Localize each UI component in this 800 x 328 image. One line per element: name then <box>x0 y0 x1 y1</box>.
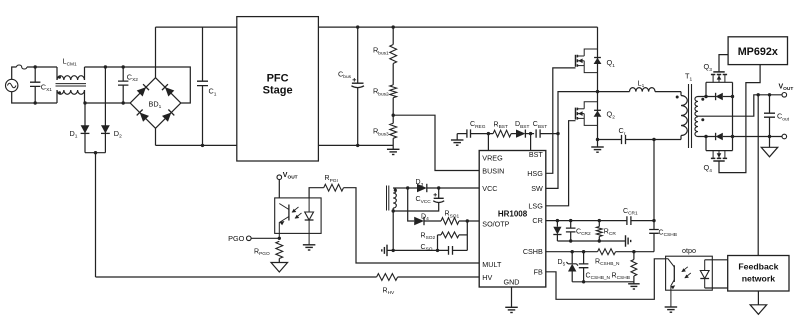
svg-text:BUSIN: BUSIN <box>482 167 504 176</box>
svg-text:PGO: PGO <box>228 234 245 243</box>
svg-text:HSG: HSG <box>527 169 543 178</box>
svg-text:SW: SW <box>531 184 543 193</box>
svg-text:GND: GND <box>504 278 520 287</box>
svg-text:BST: BST <box>529 150 544 159</box>
svg-text:HR1008: HR1008 <box>498 209 528 218</box>
svg-text:SO/OTP: SO/OTP <box>482 220 509 229</box>
svg-text:PFC: PFC <box>267 73 289 85</box>
svg-text:FB: FB <box>534 267 543 276</box>
svg-text:VREG: VREG <box>482 153 503 162</box>
svg-text:LSG: LSG <box>528 201 543 210</box>
svg-text:MP692x: MP692x <box>738 46 778 58</box>
svg-text:MULT: MULT <box>482 260 502 269</box>
svg-text:Feedback: Feedback <box>738 262 778 272</box>
svg-text:CSHB: CSHB <box>523 247 543 256</box>
svg-text:VCC: VCC <box>482 184 497 193</box>
svg-text:Stage: Stage <box>263 85 293 97</box>
svg-text:network: network <box>742 274 775 284</box>
svg-text:otpo: otpo <box>682 246 696 255</box>
svg-text:CR: CR <box>532 216 542 225</box>
svg-text:HV: HV <box>482 273 492 282</box>
